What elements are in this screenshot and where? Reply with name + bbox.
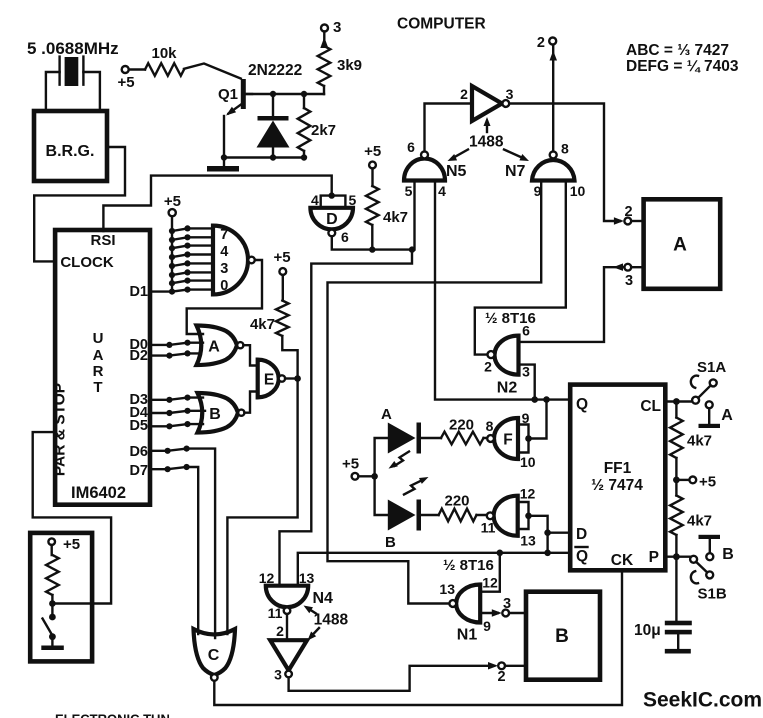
svg-text:Q: Q bbox=[576, 396, 588, 413]
gate 7430 8-input NAND bbox=[213, 226, 255, 295]
wire inverter output to computer box A pin 2 bbox=[509, 104, 620, 222]
svg-text:+5: +5 bbox=[63, 536, 80, 553]
svg-text:10: 10 bbox=[570, 183, 586, 199]
svg-text:2N2222: 2N2222 bbox=[248, 62, 302, 79]
gate B (1/3 7427 NOR) bbox=[198, 393, 245, 433]
wire P node down to capacitor bbox=[675, 557, 677, 621]
svg-text:U: U bbox=[93, 330, 104, 347]
svg-text:11: 11 bbox=[268, 605, 283, 621]
svg-text:8: 8 bbox=[486, 418, 494, 434]
svg-text:A: A bbox=[208, 339, 220, 356]
svg-text:4k7: 4k7 bbox=[687, 433, 712, 450]
wire gate B output to gate E input 2 bbox=[244, 392, 258, 413]
wire FF1 D pin bbox=[548, 532, 571, 534]
svg-text:220: 220 bbox=[444, 493, 469, 510]
switch S1B bbox=[690, 556, 727, 603]
svg-text:2: 2 bbox=[497, 669, 505, 685]
keyboard key box bbox=[30, 533, 92, 662]
wire box A pin 3 to N2 output 6 bbox=[519, 267, 625, 342]
junction keyboard output bbox=[49, 600, 56, 607]
svg-text:ELECTRONIC TUN: ELECTRONIC TUN bbox=[55, 712, 170, 718]
line receiver N1 (1/2 8T16) bbox=[439, 557, 498, 644]
connector link 7430 input 6 bbox=[169, 272, 175, 278]
junction at 2k7 top bbox=[301, 91, 307, 97]
svg-text:N5: N5 bbox=[446, 163, 467, 180]
gate E (1/4 7403 NAND) bbox=[258, 360, 285, 398]
gate D (1/4 7403 NAND) pins 4,5 bbox=[311, 192, 357, 208]
svg-text:+5: +5 bbox=[699, 474, 716, 491]
svg-text:C: C bbox=[208, 647, 220, 664]
node 2 terminal into box B bbox=[497, 662, 505, 685]
node +5 terminal (keyboard) bbox=[48, 536, 80, 553]
svg-text:F: F bbox=[503, 432, 512, 449]
svg-text:3: 3 bbox=[274, 667, 282, 683]
svg-text:PAR & STOP: PAR & STOP bbox=[52, 383, 69, 476]
wire N5 input 4 from FF1 Q line bbox=[435, 181, 570, 400]
svg-text:7: 7 bbox=[220, 227, 228, 243]
svg-text:2: 2 bbox=[537, 35, 545, 51]
svg-text:D: D bbox=[326, 211, 338, 228]
inverter 1488 (pins 2,3) bbox=[460, 86, 514, 121]
svg-text:+5: +5 bbox=[342, 456, 359, 473]
UART IM6402 bbox=[52, 230, 151, 505]
wire FF1 Q-bar line to N4 pin 13 bbox=[298, 553, 570, 586]
svg-text:3: 3 bbox=[333, 19, 341, 36]
connector link 7430 input 3 bbox=[169, 245, 175, 251]
junction at diode top bbox=[270, 91, 276, 97]
wire FF1 CL to S1A bbox=[665, 400, 692, 402]
svg-text:CL: CL bbox=[640, 398, 661, 415]
svg-text:N1: N1 bbox=[457, 627, 478, 644]
svg-text:Q: Q bbox=[576, 548, 588, 565]
svg-text:D: D bbox=[576, 526, 587, 543]
wire N1 pin 12 to Q-bar line bbox=[480, 553, 500, 592]
baud rate generator B.R.G. bbox=[34, 111, 107, 181]
svg-text:P: P bbox=[649, 549, 659, 566]
svg-text:3: 3 bbox=[506, 86, 514, 102]
computer box B bbox=[526, 592, 600, 680]
svg-text:5: 5 bbox=[405, 183, 413, 199]
wire UART TRO (top pin) to gate D inputs bbox=[103, 176, 331, 231]
svg-text:B: B bbox=[722, 546, 734, 563]
wire B.R.G. output to UART CLOCK pin bbox=[34, 147, 125, 261]
connector link D4 bbox=[150, 411, 205, 413]
wire N1 output to box B pin 3 bbox=[480, 612, 498, 614]
svg-text:ABC = ⅓ 7427: ABC = ⅓ 7427 bbox=[626, 42, 729, 59]
gate A (1/3 7427 NOR) bbox=[197, 326, 244, 366]
svg-text:4: 4 bbox=[311, 192, 319, 208]
svg-text:B: B bbox=[555, 626, 569, 647]
resistor 4k7 (E pull-up) bbox=[250, 275, 298, 375]
wire gate D output rail bbox=[280, 236, 413, 585]
wire UART keyboard input to key switch bbox=[33, 432, 111, 603]
transistor Q1 2N2222 bbox=[218, 62, 302, 116]
wire +5 bus for 7430 inputs bbox=[171, 216, 173, 291]
flip-flop FF1 1/2 7474 bbox=[570, 385, 665, 571]
wire gate A output to gate E input 1 bbox=[243, 345, 258, 365]
svg-text:CLOCK: CLOCK bbox=[60, 254, 113, 271]
node +5 terminal for 4k7 pull-up (E) bbox=[273, 249, 290, 275]
svg-text:4k7: 4k7 bbox=[383, 209, 408, 226]
svg-text:Q1: Q1 bbox=[218, 86, 238, 103]
svg-text:3: 3 bbox=[220, 261, 228, 277]
svg-text:R: R bbox=[93, 363, 104, 380]
svg-text:5 .0688MHz: 5 .0688MHz bbox=[27, 39, 119, 58]
svg-text:1488: 1488 bbox=[314, 612, 349, 629]
gate G (1/4 7403) with input bubble pin 11 bbox=[481, 486, 536, 549]
node 2 terminal (top) bbox=[537, 35, 556, 51]
connector link D2 bbox=[150, 353, 201, 355]
svg-text:3: 3 bbox=[522, 364, 530, 380]
svg-text:9: 9 bbox=[483, 618, 491, 634]
svg-text:A: A bbox=[93, 347, 104, 364]
connector link D3 bbox=[150, 398, 203, 400]
gate C (1/3 7427 NOR) bbox=[194, 629, 236, 681]
svg-text:D5: D5 bbox=[129, 418, 148, 434]
svg-text:+5: +5 bbox=[117, 74, 134, 91]
svg-text:S1A: S1A bbox=[697, 359, 726, 376]
wire N5 input 5 from gate D output bbox=[413, 181, 415, 250]
svg-text:IM6402: IM6402 bbox=[71, 484, 126, 502]
capacitor 10u bbox=[634, 621, 692, 649]
wire N7 input 10 to N2 input 2 bbox=[475, 181, 566, 355]
ground symbol (keyboard) bbox=[41, 646, 64, 651]
resistor 2k7 bbox=[298, 94, 336, 158]
resistor 10k bbox=[129, 45, 184, 76]
wire N7 input 9 to N1 input 13 bbox=[328, 181, 542, 604]
svg-text:A: A bbox=[673, 235, 687, 256]
svg-text:RSI: RSI bbox=[90, 232, 115, 249]
ground symbol (capacitor) bbox=[665, 649, 691, 654]
resistor 220 (B) bbox=[421, 493, 487, 522]
svg-text:A: A bbox=[381, 406, 392, 423]
svg-text:13: 13 bbox=[299, 570, 315, 586]
connector link 7430 input 1 bbox=[169, 228, 175, 234]
wire +5 to LED anodes bbox=[358, 438, 387, 515]
svg-text:B: B bbox=[209, 406, 221, 423]
node +5 terminal at 10k bbox=[117, 66, 134, 91]
connector link 7430 input 5 bbox=[169, 263, 175, 269]
connector link D6 bbox=[150, 449, 187, 451]
wire 10k to Q1 base bbox=[184, 64, 241, 79]
svg-text:3k9: 3k9 bbox=[337, 57, 362, 74]
svg-text:E: E bbox=[264, 372, 274, 389]
svg-text:220: 220 bbox=[449, 417, 474, 434]
svg-text:D7: D7 bbox=[129, 463, 148, 479]
svg-text:FF1: FF1 bbox=[604, 460, 632, 477]
svg-text:5: 5 bbox=[349, 192, 357, 208]
wire N2 pin 3 to FF1 Q line bbox=[519, 365, 535, 400]
svg-text:D1: D1 bbox=[129, 284, 148, 300]
inverter 1488 (pins 2,3 bottom) bbox=[270, 640, 307, 682]
svg-text:A: A bbox=[721, 407, 733, 424]
LED B (opto) bbox=[385, 477, 429, 551]
svg-text:12: 12 bbox=[259, 570, 275, 586]
svg-text:B: B bbox=[385, 534, 396, 551]
resistor 4k7 (lower right) bbox=[670, 480, 712, 557]
svg-text:D2: D2 bbox=[129, 348, 148, 364]
node 3 terminal into box B bbox=[502, 596, 511, 616]
svg-text:+5: +5 bbox=[164, 193, 181, 210]
diode D1 (clamp) bbox=[257, 94, 290, 158]
resistor 3k9 bbox=[318, 32, 362, 95]
wire Q1 emitter to ground rail bbox=[223, 116, 225, 166]
node +5 terminal (LED feed) bbox=[342, 456, 359, 480]
svg-text:2: 2 bbox=[484, 359, 492, 375]
node B terminal post bbox=[699, 535, 734, 563]
connector link 7430 input 2 bbox=[169, 237, 175, 243]
wire D6 to gate C input 2 bbox=[187, 449, 216, 638]
svg-text:2: 2 bbox=[624, 204, 632, 220]
svg-text:N7: N7 bbox=[505, 163, 526, 180]
svg-text:N4: N4 bbox=[313, 590, 334, 607]
svg-text:2k7: 2k7 bbox=[311, 122, 336, 139]
node 3 terminal above 3k9 bbox=[321, 19, 341, 36]
svg-text:4k7: 4k7 bbox=[687, 513, 712, 530]
svg-text:4: 4 bbox=[220, 244, 228, 260]
switch S (keyboard key) bbox=[43, 614, 56, 646]
resistor 4k7 (gate D pull-up) bbox=[366, 168, 408, 249]
wire N4 output to inverter input pin 2 bbox=[286, 614, 288, 640]
gate F (1/4 7403) with input bubble pin 8 bbox=[486, 410, 536, 470]
resistor keyboard pull-up bbox=[46, 545, 59, 617]
svg-text:6: 6 bbox=[522, 323, 530, 339]
gate N4 (1488 NAND) pins 12,13,11 bbox=[259, 570, 333, 621]
svg-text:+5: +5 bbox=[273, 249, 290, 266]
svg-text:1488: 1488 bbox=[469, 134, 504, 151]
svg-text:D6: D6 bbox=[129, 444, 148, 460]
resistor 4k7 (upper right) bbox=[670, 402, 712, 480]
crystal Y1 5.0688MHz bbox=[27, 39, 119, 86]
svg-text:DEFG = ¼ 7403: DEFG = ¼ 7403 bbox=[626, 58, 739, 75]
node 3 terminal from box A bbox=[624, 264, 633, 289]
svg-text:4: 4 bbox=[438, 183, 446, 199]
switch S1A bbox=[691, 359, 727, 404]
svg-text:6: 6 bbox=[341, 229, 349, 245]
node A terminal post bbox=[699, 401, 734, 428]
svg-text:N2: N2 bbox=[497, 380, 518, 397]
svg-text:½ 8T16: ½ 8T16 bbox=[443, 557, 494, 574]
label 1488 with arrows (bottom) bbox=[304, 606, 349, 641]
gate D body bbox=[310, 208, 353, 245]
wire inverter output to box B pin 2 bbox=[289, 666, 494, 691]
svg-text:B.R.G.: B.R.G. bbox=[46, 143, 95, 160]
wire Q1 collector rail bbox=[246, 93, 324, 95]
wire N7 output up to terminal 2 bbox=[552, 45, 554, 151]
svg-text:+5: +5 bbox=[364, 143, 381, 160]
svg-text:½ 7474: ½ 7474 bbox=[591, 477, 643, 494]
connector link D7 bbox=[150, 467, 187, 469]
wire gate C output to FF1 CK bbox=[214, 570, 622, 705]
svg-text:3: 3 bbox=[503, 596, 511, 612]
svg-text:10k: 10k bbox=[151, 45, 177, 62]
wire crystal to B.R.G. bbox=[46, 72, 60, 110]
gate N7 (1488 NAND) bbox=[505, 141, 585, 200]
wire gate F pins 9,10 tie to Q line bbox=[518, 425, 529, 453]
wire gate G pins 12,13 tie to FF1 D and Q-bar bbox=[518, 502, 529, 529]
node +5 pull-up for 7430 inputs bbox=[164, 193, 181, 216]
label 1488 with arrows bbox=[448, 117, 530, 161]
wire 7430 output to gate A input 1 bbox=[187, 260, 262, 334]
connector link D0 bbox=[150, 343, 203, 345]
svg-text:13: 13 bbox=[520, 533, 536, 549]
wire gate E output node bbox=[285, 377, 298, 379]
svg-text:8: 8 bbox=[561, 141, 569, 157]
svg-text:10μ: 10μ bbox=[634, 622, 661, 639]
svg-text:2: 2 bbox=[460, 86, 468, 102]
ground symbol under Q1 bbox=[207, 166, 239, 172]
svg-text:6: 6 bbox=[407, 139, 415, 155]
connector link D5 bbox=[150, 424, 203, 426]
svg-text:T: T bbox=[93, 379, 102, 396]
wire FF1 P to S1B bbox=[665, 556, 690, 558]
wire N5 output to 1488 inverter input bbox=[425, 104, 473, 152]
connector link 7430 input 7 bbox=[169, 280, 175, 286]
wire UART D1 to 7430 input 8 bbox=[150, 290, 213, 292]
wire gate E output to gate C input 3 bbox=[227, 379, 297, 635]
svg-text:12: 12 bbox=[482, 575, 498, 591]
svg-text:0: 0 bbox=[220, 278, 228, 294]
LED A (opto) bbox=[381, 406, 421, 469]
svg-text:13: 13 bbox=[439, 581, 455, 597]
svg-text:COMPUTER: COMPUTER bbox=[397, 16, 486, 33]
svg-text:S1B: S1B bbox=[698, 586, 727, 603]
svg-text:SeekIC.com: SeekIC.com bbox=[643, 689, 762, 712]
computer box A bbox=[644, 199, 721, 288]
wire D7 to gate C input 1 bbox=[187, 467, 199, 634]
svg-text:12: 12 bbox=[520, 486, 536, 502]
svg-text:4k7: 4k7 bbox=[250, 316, 275, 333]
svg-text:2: 2 bbox=[276, 623, 284, 639]
gate N5 (1488 NAND) bbox=[404, 139, 467, 199]
svg-text:10: 10 bbox=[520, 454, 536, 470]
line receiver N2 (1/2 8T16) bbox=[484, 310, 536, 397]
svg-text:3: 3 bbox=[625, 273, 633, 289]
node +5 terminal (right) bbox=[673, 474, 716, 491]
node 2 terminal into box A bbox=[624, 204, 632, 224]
svg-text:CK: CK bbox=[611, 552, 634, 569]
resistor 220 (A) bbox=[421, 417, 487, 445]
node +5 terminal (gate D pull-up) bbox=[364, 143, 381, 168]
connector link 7430 input 4 bbox=[169, 254, 175, 260]
